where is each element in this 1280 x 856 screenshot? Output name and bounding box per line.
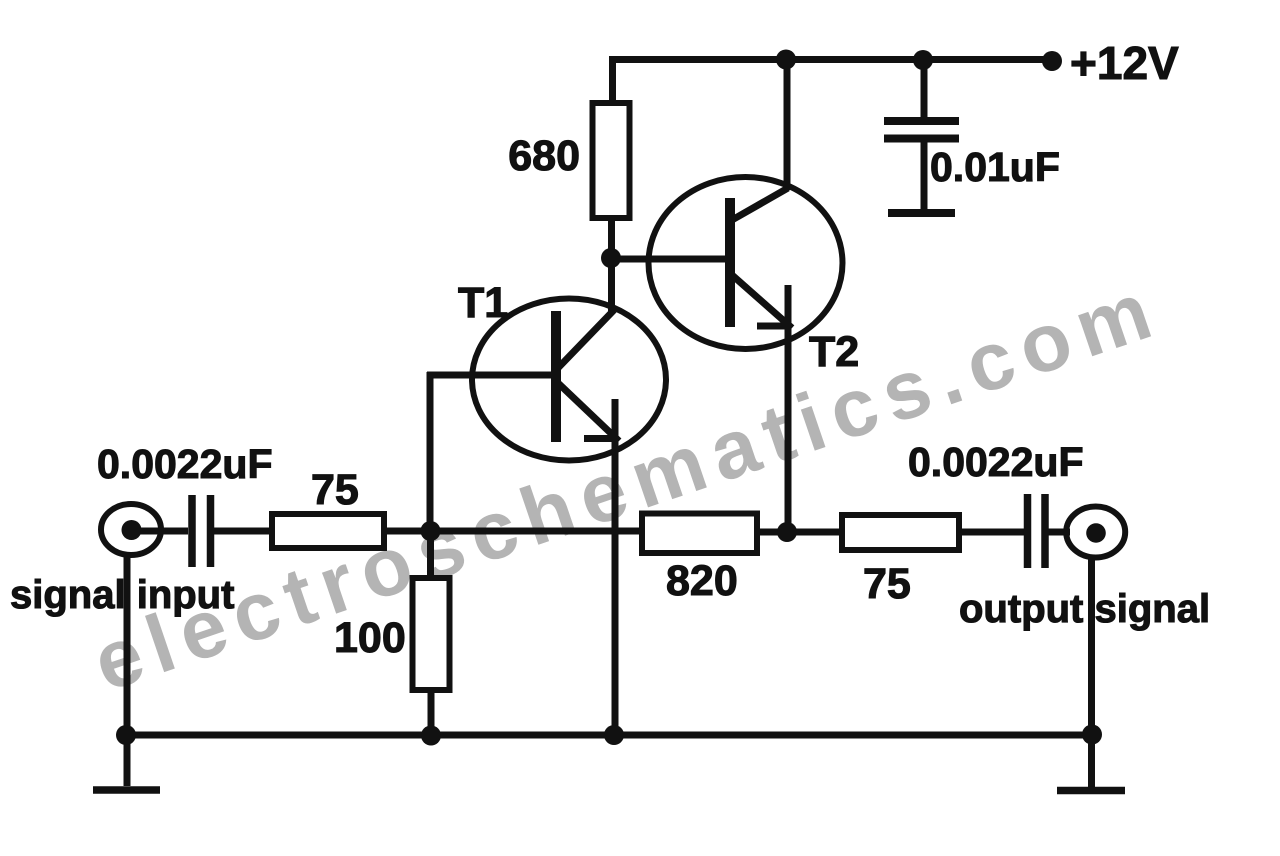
resistor 75 right <box>842 515 959 550</box>
transistor T2 <box>649 177 843 349</box>
wire C3 top lead <box>921 57 928 118</box>
capacitor C1 0.0022uF <box>192 495 211 567</box>
capacitor C2 0.0022uF <box>1028 494 1046 568</box>
svg-text:680: 680 <box>508 132 580 180</box>
wire input terminal to ground <box>124 553 131 786</box>
wire input terminal to C1 <box>138 528 188 535</box>
wire C3 bottom lead <box>921 142 928 210</box>
ground right <box>1057 787 1125 795</box>
wire 680 top lead <box>609 57 616 104</box>
terminal output signal <box>1066 507 1125 558</box>
wire T1 emitter down to ground rail <box>612 399 619 737</box>
terminal signal input <box>101 504 161 555</box>
svg-text:820: 820 <box>666 557 738 605</box>
resistor 680 <box>593 103 630 218</box>
wire bottom ground rail <box>126 732 1092 739</box>
wire node B down to R100 <box>427 531 434 579</box>
node rail +12V end <box>1042 51 1062 71</box>
wire 680 bottom lead to T1 collector <box>608 218 615 314</box>
svg-text:0.01uF: 0.01uF <box>930 144 1060 190</box>
node junction A (680 / T1 collector / T2 base) <box>601 248 621 268</box>
ground bar C3 <box>888 209 955 217</box>
svg-text:T2: T2 <box>809 328 859 376</box>
resistor 820 <box>642 514 757 554</box>
wire node B to R820 <box>438 528 643 535</box>
capacitor C3 0.01uF <box>884 121 959 139</box>
wire T2 collector to rail <box>784 57 791 190</box>
wire output terminal to ground <box>1088 556 1095 787</box>
wire node A to T2 base <box>611 256 728 263</box>
node ground rail right <box>1082 725 1102 745</box>
node junction C (T2 emitter / 820 / 75) <box>777 522 797 542</box>
svg-text:75: 75 <box>863 560 911 608</box>
node ground rail R100 <box>421 726 441 746</box>
svg-text:100: 100 <box>334 614 406 662</box>
svg-text:T1: T1 <box>458 279 508 327</box>
node ground rail T1 emitter <box>604 725 624 745</box>
resistor 75 left <box>272 514 384 548</box>
wire C1 to R 75 left <box>214 528 273 535</box>
wire C2 to output terminal <box>1048 529 1070 536</box>
svg-text:0.0022uF: 0.0022uF <box>908 439 1084 485</box>
node ground rail left <box>116 725 136 745</box>
wire T2 emitter down to 820/75 junction <box>785 285 792 532</box>
svg-text:0.0022uF: 0.0022uF <box>97 441 273 487</box>
node rail C3 <box>913 50 933 70</box>
resistor 100 <box>413 578 450 690</box>
node rail T2 collector <box>776 50 796 70</box>
wire R75 to node B <box>384 528 432 535</box>
svg-text:75: 75 <box>311 466 359 514</box>
node junction B (input node) <box>421 521 441 541</box>
wire R75 right to C2 <box>958 529 1024 536</box>
svg-text:+12V: +12V <box>1070 37 1179 89</box>
wire T1 base lead <box>427 372 551 379</box>
ground left <box>93 786 160 794</box>
svg-text:output signal: output signal <box>959 587 1210 631</box>
wire R100 to ground rail <box>428 690 435 737</box>
wire top supply rail <box>609 56 1053 63</box>
wire R820 to junction C <box>756 529 843 536</box>
svg-text:signal input: signal input <box>10 573 234 617</box>
transistor T1 <box>472 299 666 461</box>
wire T1 base down to input node <box>427 372 434 531</box>
